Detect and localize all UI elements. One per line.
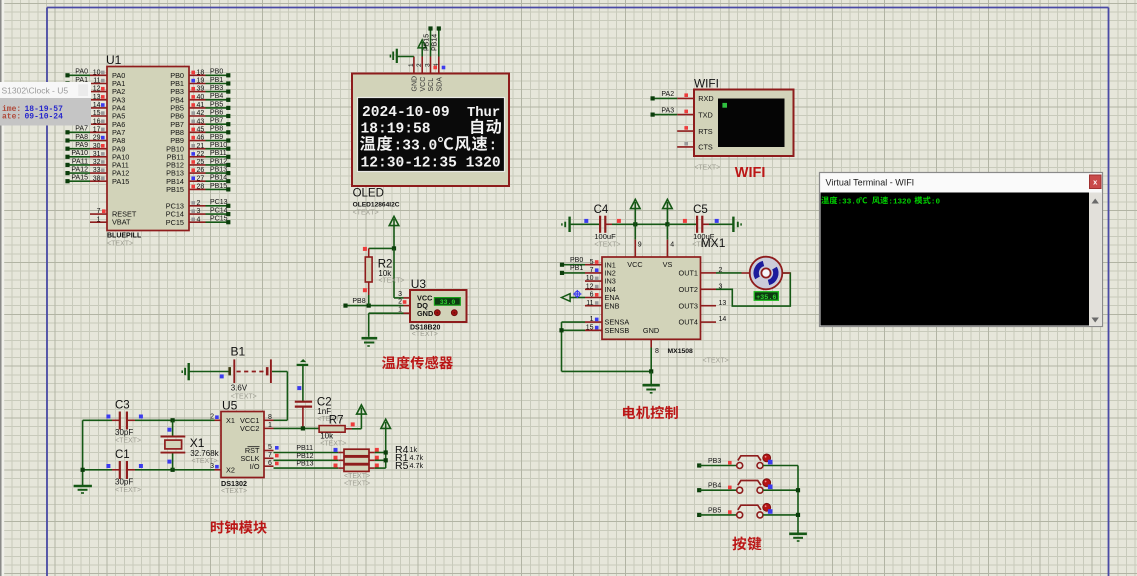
svg-text:18: 18 bbox=[197, 69, 205, 76]
svg-text:21: 21 bbox=[197, 143, 205, 150]
power terminal (C2 top) bbox=[297, 360, 309, 365]
wire VCC down to pin 9 bbox=[635, 224, 641, 257]
wire SENSA/SENSB bus bbox=[559, 322, 651, 371]
R4 labels bbox=[395, 444, 417, 456]
svg-text:41: 41 bbox=[197, 102, 205, 109]
svg-text:17: 17 bbox=[93, 126, 101, 133]
U5 pin 5 RST bbox=[245, 444, 279, 455]
svg-text:11: 11 bbox=[586, 300, 593, 307]
DS1302 clock popup bbox=[0, 82, 91, 126]
svg-text:OUT3: OUT3 bbox=[679, 301, 698, 310]
svg-text:PB12: PB12 bbox=[296, 453, 313, 460]
ground (buttons) bbox=[789, 534, 807, 541]
ground (battery B1) bbox=[182, 363, 189, 380]
C1 labels bbox=[115, 449, 141, 494]
svg-text:PA8: PA8 bbox=[75, 134, 88, 141]
wire PB3 bbox=[697, 458, 737, 468]
U1 pin 38 PA15 bbox=[65, 175, 129, 186]
svg-text:CTS: CTS bbox=[698, 143, 713, 152]
resistor stack TEXT labels bbox=[344, 473, 370, 488]
svg-text:VS: VS bbox=[663, 260, 673, 269]
U3 pin 2 DQ bbox=[398, 299, 428, 311]
svg-text:30pF: 30pF bbox=[115, 478, 133, 487]
MX1508 pin 10 IN3 bbox=[585, 275, 616, 286]
svg-text:46: 46 bbox=[197, 135, 205, 142]
svg-text:VCC2: VCC2 bbox=[240, 424, 259, 433]
motor speed display bbox=[754, 292, 778, 302]
window edge strip bbox=[0, 0, 4, 576]
R7 label bbox=[329, 414, 344, 426]
wire OUT1 to motor bbox=[716, 272, 742, 274]
wire PB5 to bus bbox=[763, 514, 798, 516]
svg-text:R5: R5 bbox=[395, 460, 409, 472]
wire PB12 bbox=[274, 453, 339, 461]
svg-text:PB15: PB15 bbox=[166, 185, 184, 194]
svg-text:<TEXT>: <TEXT> bbox=[192, 458, 218, 465]
U1 pin 45 PB8 bbox=[170, 126, 230, 137]
wire B1 to U5 VCC1 bbox=[272, 372, 287, 421]
U1 pin 39 PB3 bbox=[170, 85, 230, 96]
ground (C4 left) bbox=[562, 217, 570, 232]
svg-text:OUT1: OUT1 bbox=[679, 269, 698, 278]
svg-text:6: 6 bbox=[590, 292, 594, 299]
svg-text:2: 2 bbox=[210, 413, 214, 420]
OLED pin 2 VCC bbox=[416, 57, 427, 92]
svg-text:PB8: PB8 bbox=[210, 126, 223, 133]
power VCC (temp sensor) bbox=[389, 216, 399, 248]
U1 pin 16 PA6 bbox=[90, 118, 125, 129]
U1 value BLUEPILL bbox=[107, 233, 142, 248]
C2 labels bbox=[317, 397, 343, 423]
svg-text:7: 7 bbox=[590, 267, 594, 274]
svg-text:25: 25 bbox=[197, 159, 205, 166]
wire OUT2 loop to motor bbox=[716, 273, 790, 306]
battery B1 bbox=[230, 345, 271, 384]
U3 value labels bbox=[410, 324, 440, 338]
svg-text:12:30-12:35 1320: 12:30-12:35 1320 bbox=[361, 155, 501, 171]
svg-text:<TEXT>: <TEXT> bbox=[703, 358, 729, 365]
svg-text:2: 2 bbox=[197, 200, 201, 207]
svg-text:OLED: OLED bbox=[353, 188, 384, 200]
wire PB4 to bus bbox=[763, 489, 798, 491]
wire R4 right bbox=[375, 452, 386, 454]
MX1508 value labels bbox=[668, 348, 729, 365]
wire C1 row bbox=[83, 468, 215, 472]
svg-text:PB11: PB11 bbox=[296, 445, 313, 452]
wire left bus to ground bbox=[81, 420, 85, 485]
U1 pin 46 PB9 bbox=[170, 134, 230, 145]
motor MX1 bbox=[742, 257, 791, 290]
svg-text:32: 32 bbox=[93, 159, 101, 166]
wire PB11 bbox=[274, 445, 339, 453]
svg-text:2: 2 bbox=[416, 63, 423, 67]
svg-text:1: 1 bbox=[398, 306, 402, 313]
crystal X1 bbox=[161, 420, 186, 470]
U1 pin 32 PA11 bbox=[65, 158, 128, 169]
svg-text:09-10-24: 09-10-24 bbox=[25, 113, 64, 122]
U5 pin 6 I/O bbox=[250, 460, 279, 471]
svg-text:C4: C4 bbox=[594, 204, 609, 216]
svg-text:1: 1 bbox=[268, 422, 272, 429]
WIFI pin RXD bbox=[651, 91, 714, 103]
svg-text:PB1: PB1 bbox=[570, 265, 583, 272]
WIFI pin CTS bbox=[677, 142, 713, 152]
svg-text:13: 13 bbox=[93, 94, 101, 101]
svg-text:WIFI: WIFI bbox=[694, 76, 719, 90]
capacitor C5 bbox=[667, 216, 718, 233]
wire U5 VCC2 node bbox=[274, 426, 320, 430]
R7 labels bbox=[320, 432, 346, 448]
svg-text:PC15: PC15 bbox=[166, 218, 184, 227]
resistor R7 bbox=[319, 422, 355, 432]
wire ground to B1 bbox=[190, 372, 229, 379]
svg-text:PB7: PB7 bbox=[210, 118, 223, 125]
svg-text:PB14: PB14 bbox=[432, 34, 439, 51]
svg-text:SCL: SCL bbox=[428, 78, 435, 92]
U1 pin 43 PB7 bbox=[170, 118, 230, 129]
WIFI module body bbox=[694, 90, 794, 157]
svg-text:1: 1 bbox=[590, 316, 594, 323]
svg-text:PB13: PB13 bbox=[210, 167, 227, 174]
svg-text:8: 8 bbox=[655, 348, 659, 355]
svg-text:3: 3 bbox=[398, 291, 402, 298]
power VCC (MX VS) bbox=[663, 199, 673, 226]
svg-text:PB3: PB3 bbox=[708, 458, 721, 465]
svg-text:<TEXT>: <TEXT> bbox=[320, 440, 346, 447]
section label 按键 bbox=[732, 536, 761, 550]
svg-text:PB15: PB15 bbox=[210, 183, 227, 190]
Virtual Terminal window bbox=[820, 173, 1103, 327]
svg-text:7: 7 bbox=[268, 452, 272, 459]
svg-text:MX1508: MX1508 bbox=[668, 348, 694, 355]
svg-text:PB0: PB0 bbox=[570, 257, 583, 264]
U1 pin 22 PB11 bbox=[167, 150, 231, 161]
R2 labels bbox=[378, 259, 405, 285]
wire U3 GND to ground bbox=[369, 313, 404, 337]
svg-text:X1: X1 bbox=[226, 416, 235, 425]
svg-text:3.6V: 3.6V bbox=[231, 384, 248, 393]
WIFI pin RTS bbox=[677, 126, 713, 136]
svg-text:PB15: PB15 bbox=[423, 34, 430, 51]
resistor R5 bbox=[338, 464, 379, 472]
U3 pin 3 VCC bbox=[398, 291, 433, 303]
svg-text::33.0: :33.0 bbox=[394, 139, 438, 155]
U1 pin 10 PA0 bbox=[65, 69, 125, 80]
svg-text:39: 39 bbox=[197, 86, 205, 93]
U1 pin 19 PB1 bbox=[170, 77, 230, 88]
U1 pin 42 PB6 bbox=[170, 109, 230, 120]
svg-text:13: 13 bbox=[719, 300, 727, 307]
svg-text:29: 29 bbox=[93, 135, 101, 142]
U5 value labels bbox=[221, 479, 247, 495]
svg-text:PB5: PB5 bbox=[210, 101, 223, 108]
svg-text:19: 19 bbox=[197, 78, 205, 85]
U1 pin 13 PA3 bbox=[90, 94, 125, 105]
svg-text:14: 14 bbox=[93, 102, 101, 109]
svg-text:WIFI: WIFI bbox=[735, 165, 766, 181]
svg-text:OLED12864I2C: OLED12864I2C bbox=[353, 202, 400, 209]
svg-text:R7: R7 bbox=[329, 414, 344, 426]
svg-text:PC13: PC13 bbox=[210, 199, 228, 206]
capacitor C4 bbox=[571, 216, 621, 233]
svg-text:PB10: PB10 bbox=[210, 142, 227, 149]
push button PB5 bbox=[737, 503, 773, 518]
ground (C5 right) bbox=[709, 217, 741, 232]
svg-text:PB12: PB12 bbox=[210, 158, 227, 165]
svg-text:<TEXT>: <TEXT> bbox=[353, 209, 379, 216]
svg-text:MX1: MX1 bbox=[701, 236, 726, 250]
svg-text:PA10: PA10 bbox=[71, 150, 88, 157]
svg-text:ate:: ate: bbox=[2, 113, 21, 122]
svg-text:33: 33 bbox=[93, 167, 101, 174]
power VCC (R7) bbox=[352, 405, 366, 429]
MX1508 driver body bbox=[602, 257, 701, 339]
U1 pin 33 PA12 bbox=[65, 167, 129, 178]
capacitor C1 bbox=[106, 461, 142, 479]
svg-text:B1: B1 bbox=[231, 345, 246, 359]
svg-text:32.768k: 32.768k bbox=[190, 449, 219, 458]
svg-text:10: 10 bbox=[93, 69, 101, 76]
svg-text:PB11: PB11 bbox=[210, 150, 227, 157]
MX1508 pin 5 IN1 bbox=[560, 257, 616, 269]
U1 pin 15 PA5 bbox=[90, 110, 125, 121]
svg-text:TXD: TXD bbox=[698, 110, 713, 119]
wire R5 right bbox=[375, 467, 386, 469]
svg-text:5: 5 bbox=[268, 444, 272, 451]
U1 pin 31 PA10 bbox=[65, 150, 129, 161]
op-amp U1 label bbox=[106, 53, 122, 67]
svg-text:PB4: PB4 bbox=[708, 483, 721, 490]
svg-text:PC15: PC15 bbox=[210, 216, 228, 223]
svg-text:<TEXT>: <TEXT> bbox=[107, 241, 133, 248]
wire VCC node to R2 and U3 bbox=[369, 246, 404, 298]
svg-text:OUT4: OUT4 bbox=[679, 318, 698, 327]
svg-text:U3: U3 bbox=[411, 277, 427, 291]
svg-text:PB9: PB9 bbox=[210, 134, 223, 141]
svg-text:15: 15 bbox=[586, 324, 594, 331]
ground (MX1508) bbox=[643, 385, 660, 393]
wire PB4 bbox=[697, 483, 737, 493]
resistor R2 bbox=[363, 247, 372, 295]
ground (OLED GND) bbox=[390, 49, 414, 63]
power VCC (R4 bus) bbox=[381, 419, 391, 468]
wire C3 row bbox=[83, 418, 215, 422]
U1 pin 4 PC15 bbox=[166, 216, 231, 227]
U3 pin 1 GND bbox=[398, 306, 433, 318]
MX1508 inside VCC VS GND bbox=[627, 260, 672, 335]
MX1508 pin 3 OUT2 bbox=[679, 283, 723, 294]
U1 pin 12 PA2 bbox=[90, 86, 125, 97]
svg-text:22: 22 bbox=[197, 151, 205, 158]
WIFI value labels bbox=[694, 165, 720, 172]
wire C4 to VCC node bbox=[612, 222, 667, 226]
C4 labels bbox=[594, 204, 621, 249]
svg-text:18:19:58: 18:19:58 bbox=[361, 122, 431, 138]
U1 pin 29 PA8 bbox=[65, 134, 125, 145]
svg-text:PA11: PA11 bbox=[72, 158, 88, 165]
push button PB4 bbox=[737, 479, 773, 494]
svg-text:PB6: PB6 bbox=[210, 109, 223, 116]
svg-text:RXD: RXD bbox=[698, 94, 713, 103]
svg-text:4: 4 bbox=[197, 216, 201, 223]
U5 pin 1 VCC2 bbox=[240, 422, 273, 433]
svg-text:<TEXT>: <TEXT> bbox=[115, 438, 141, 445]
svg-text:PA15: PA15 bbox=[112, 177, 129, 186]
U3 label bbox=[411, 277, 427, 291]
U5 pin 8 VCC1 bbox=[240, 414, 273, 425]
U1 pin 41 PB5 bbox=[170, 101, 230, 112]
svg-text:<TEXT>: <TEXT> bbox=[221, 488, 247, 495]
wire VS down to pin 4 bbox=[667, 224, 674, 257]
U1 pin 2 PC13 bbox=[166, 199, 231, 210]
svg-text:RTS: RTS bbox=[698, 127, 713, 136]
svg-text:PB0: PB0 bbox=[210, 69, 223, 76]
svg-text:7: 7 bbox=[97, 208, 101, 215]
U1 pin 18 PB0 bbox=[170, 69, 230, 80]
svg-text:SENSB: SENSB bbox=[605, 326, 630, 335]
svg-text:U1: U1 bbox=[106, 53, 122, 67]
MX1508 pin 14 OUT4 bbox=[679, 316, 727, 327]
svg-text:PB1: PB1 bbox=[210, 77, 223, 84]
power VCC (OLED) bbox=[418, 40, 426, 57]
X1 labels bbox=[190, 436, 220, 465]
C3 labels bbox=[115, 400, 141, 445]
svg-text:40: 40 bbox=[197, 94, 205, 101]
svg-text:100uF: 100uF bbox=[594, 232, 616, 241]
svg-text:PB13: PB13 bbox=[296, 461, 313, 468]
svg-text:GND: GND bbox=[417, 309, 433, 318]
OLED module body bbox=[352, 74, 509, 187]
wire PB5 bbox=[697, 507, 737, 517]
OLED pin 4 SDA bbox=[433, 57, 444, 92]
MX1 label bbox=[701, 236, 726, 250]
wire PB14 to OLED SDA bbox=[432, 26, 441, 56]
svg-text:1: 1 bbox=[97, 216, 101, 223]
svg-text:5: 5 bbox=[590, 259, 594, 266]
MX1508 pin 2 OUT1 bbox=[679, 267, 723, 278]
capacitor C3 bbox=[106, 412, 142, 430]
OLED screen bbox=[358, 98, 505, 172]
resistor R4 bbox=[338, 448, 379, 456]
OLED pin3 state square bbox=[433, 66, 437, 70]
svg-text:GND: GND bbox=[643, 326, 659, 335]
U1 pin 26 PB13 bbox=[166, 167, 230, 178]
svg-text:S1302\Clock - U5: S1302\Clock - U5 bbox=[2, 86, 69, 96]
svg-text:VCC: VCC bbox=[420, 77, 427, 92]
svg-text:OUT2: OUT2 bbox=[679, 285, 698, 294]
svg-text:PB3: PB3 bbox=[210, 85, 223, 92]
svg-text:PA15: PA15 bbox=[71, 175, 88, 182]
DS18B20 U3 body bbox=[410, 290, 467, 322]
svg-text:2024-10-09: 2024-10-09 bbox=[362, 105, 450, 121]
svg-text:4: 4 bbox=[670, 242, 674, 249]
power VCC (MX VCC) bbox=[631, 199, 641, 224]
WIFI pin TXD bbox=[651, 107, 713, 119]
svg-text:10: 10 bbox=[586, 275, 594, 282]
svg-text:<TEXT>: <TEXT> bbox=[344, 473, 370, 480]
wire R1 right bbox=[375, 459, 386, 461]
WIFI label bbox=[694, 76, 719, 90]
WIFI screen bbox=[718, 99, 785, 148]
svg-text:Virtual Terminal - WIFI: Virtual Terminal - WIFI bbox=[826, 177, 915, 187]
svg-text:PA2: PA2 bbox=[661, 91, 674, 98]
U1 pin 21 PB10 bbox=[166, 142, 230, 153]
svg-text:VCC: VCC bbox=[627, 260, 642, 269]
R1 labels bbox=[395, 452, 423, 464]
svg-text:<TEXT>: <TEXT> bbox=[594, 241, 620, 248]
MX1508 pin 8 GND bbox=[649, 339, 659, 384]
svg-text::: : bbox=[489, 139, 498, 155]
svg-text:PB5: PB5 bbox=[708, 507, 721, 514]
svg-text:U5: U5 bbox=[222, 399, 238, 413]
U3 temperature display bbox=[434, 298, 460, 306]
svg-text:43: 43 bbox=[197, 118, 205, 125]
U5 pin 3 X2 bbox=[210, 463, 235, 475]
wire PB8 bbox=[343, 295, 403, 308]
svg-text:<TEXT>: <TEXT> bbox=[378, 277, 404, 284]
MX1508 pin 11 ENB bbox=[585, 300, 620, 311]
svg-text:PB8: PB8 bbox=[352, 298, 365, 305]
svg-text:3: 3 bbox=[197, 208, 201, 215]
svg-text:3: 3 bbox=[425, 63, 432, 67]
svg-text:9: 9 bbox=[638, 242, 642, 249]
MX1508 pin 7 IN2 bbox=[560, 265, 616, 277]
svg-text:11: 11 bbox=[93, 78, 100, 85]
svg-text:PA3: PA3 bbox=[661, 107, 674, 114]
svg-text:X2: X2 bbox=[226, 466, 235, 475]
svg-text:ENB: ENB bbox=[605, 301, 620, 310]
OLED pin4 state square bbox=[442, 66, 446, 70]
svg-text:GND: GND bbox=[412, 76, 419, 92]
svg-text:PB14: PB14 bbox=[210, 175, 227, 182]
section label WIFI (red) bbox=[735, 165, 766, 181]
U1 pin 25 PB12 bbox=[166, 158, 230, 169]
svg-text:C1: C1 bbox=[115, 449, 130, 461]
section label 温度传感器 bbox=[382, 356, 453, 369]
svg-text:28: 28 bbox=[197, 184, 205, 191]
svg-text:33.0: 33.0 bbox=[440, 299, 456, 306]
U5 label bbox=[222, 399, 238, 413]
svg-text:<TEXT>: <TEXT> bbox=[344, 481, 370, 488]
svg-text:C5: C5 bbox=[693, 204, 708, 216]
svg-text:BLUEPILL: BLUEPILL bbox=[107, 233, 142, 240]
MX1508 pin 1 SENSA bbox=[562, 316, 630, 327]
svg-text:PA12: PA12 bbox=[71, 167, 88, 174]
MX1508 pin 6 ENA bbox=[562, 290, 620, 302]
wire PB15 to OLED SCL bbox=[423, 26, 432, 56]
svg-text:I/O: I/O bbox=[250, 462, 260, 471]
button ground bus bbox=[796, 466, 800, 533]
svg-text:VBAT: VBAT bbox=[112, 218, 131, 227]
U1 BLUEPILL MCU body bbox=[107, 67, 189, 231]
svg-text:38: 38 bbox=[93, 175, 101, 182]
U1 pin 40 PB4 bbox=[170, 93, 230, 104]
svg-text:<TEXT>: <TEXT> bbox=[115, 487, 141, 494]
ground (temp sensor) bbox=[362, 338, 378, 346]
MX1508 pin 13 OUT3 bbox=[679, 300, 727, 311]
wire PB13 bbox=[274, 461, 339, 469]
U1 pin 27 PB14 bbox=[166, 175, 230, 186]
svg-text:Thur: Thur bbox=[467, 105, 500, 121]
U1 pin 14 PA4 bbox=[90, 102, 125, 113]
R5 labels bbox=[395, 460, 423, 472]
svg-text:C3: C3 bbox=[115, 400, 130, 412]
svg-text:42: 42 bbox=[197, 110, 205, 117]
U5 pin 7 SCLK bbox=[240, 452, 278, 463]
svg-text:PA0: PA0 bbox=[75, 69, 88, 76]
B1 labels bbox=[231, 384, 257, 401]
MX1508 pin 12 IN4 bbox=[585, 283, 616, 294]
